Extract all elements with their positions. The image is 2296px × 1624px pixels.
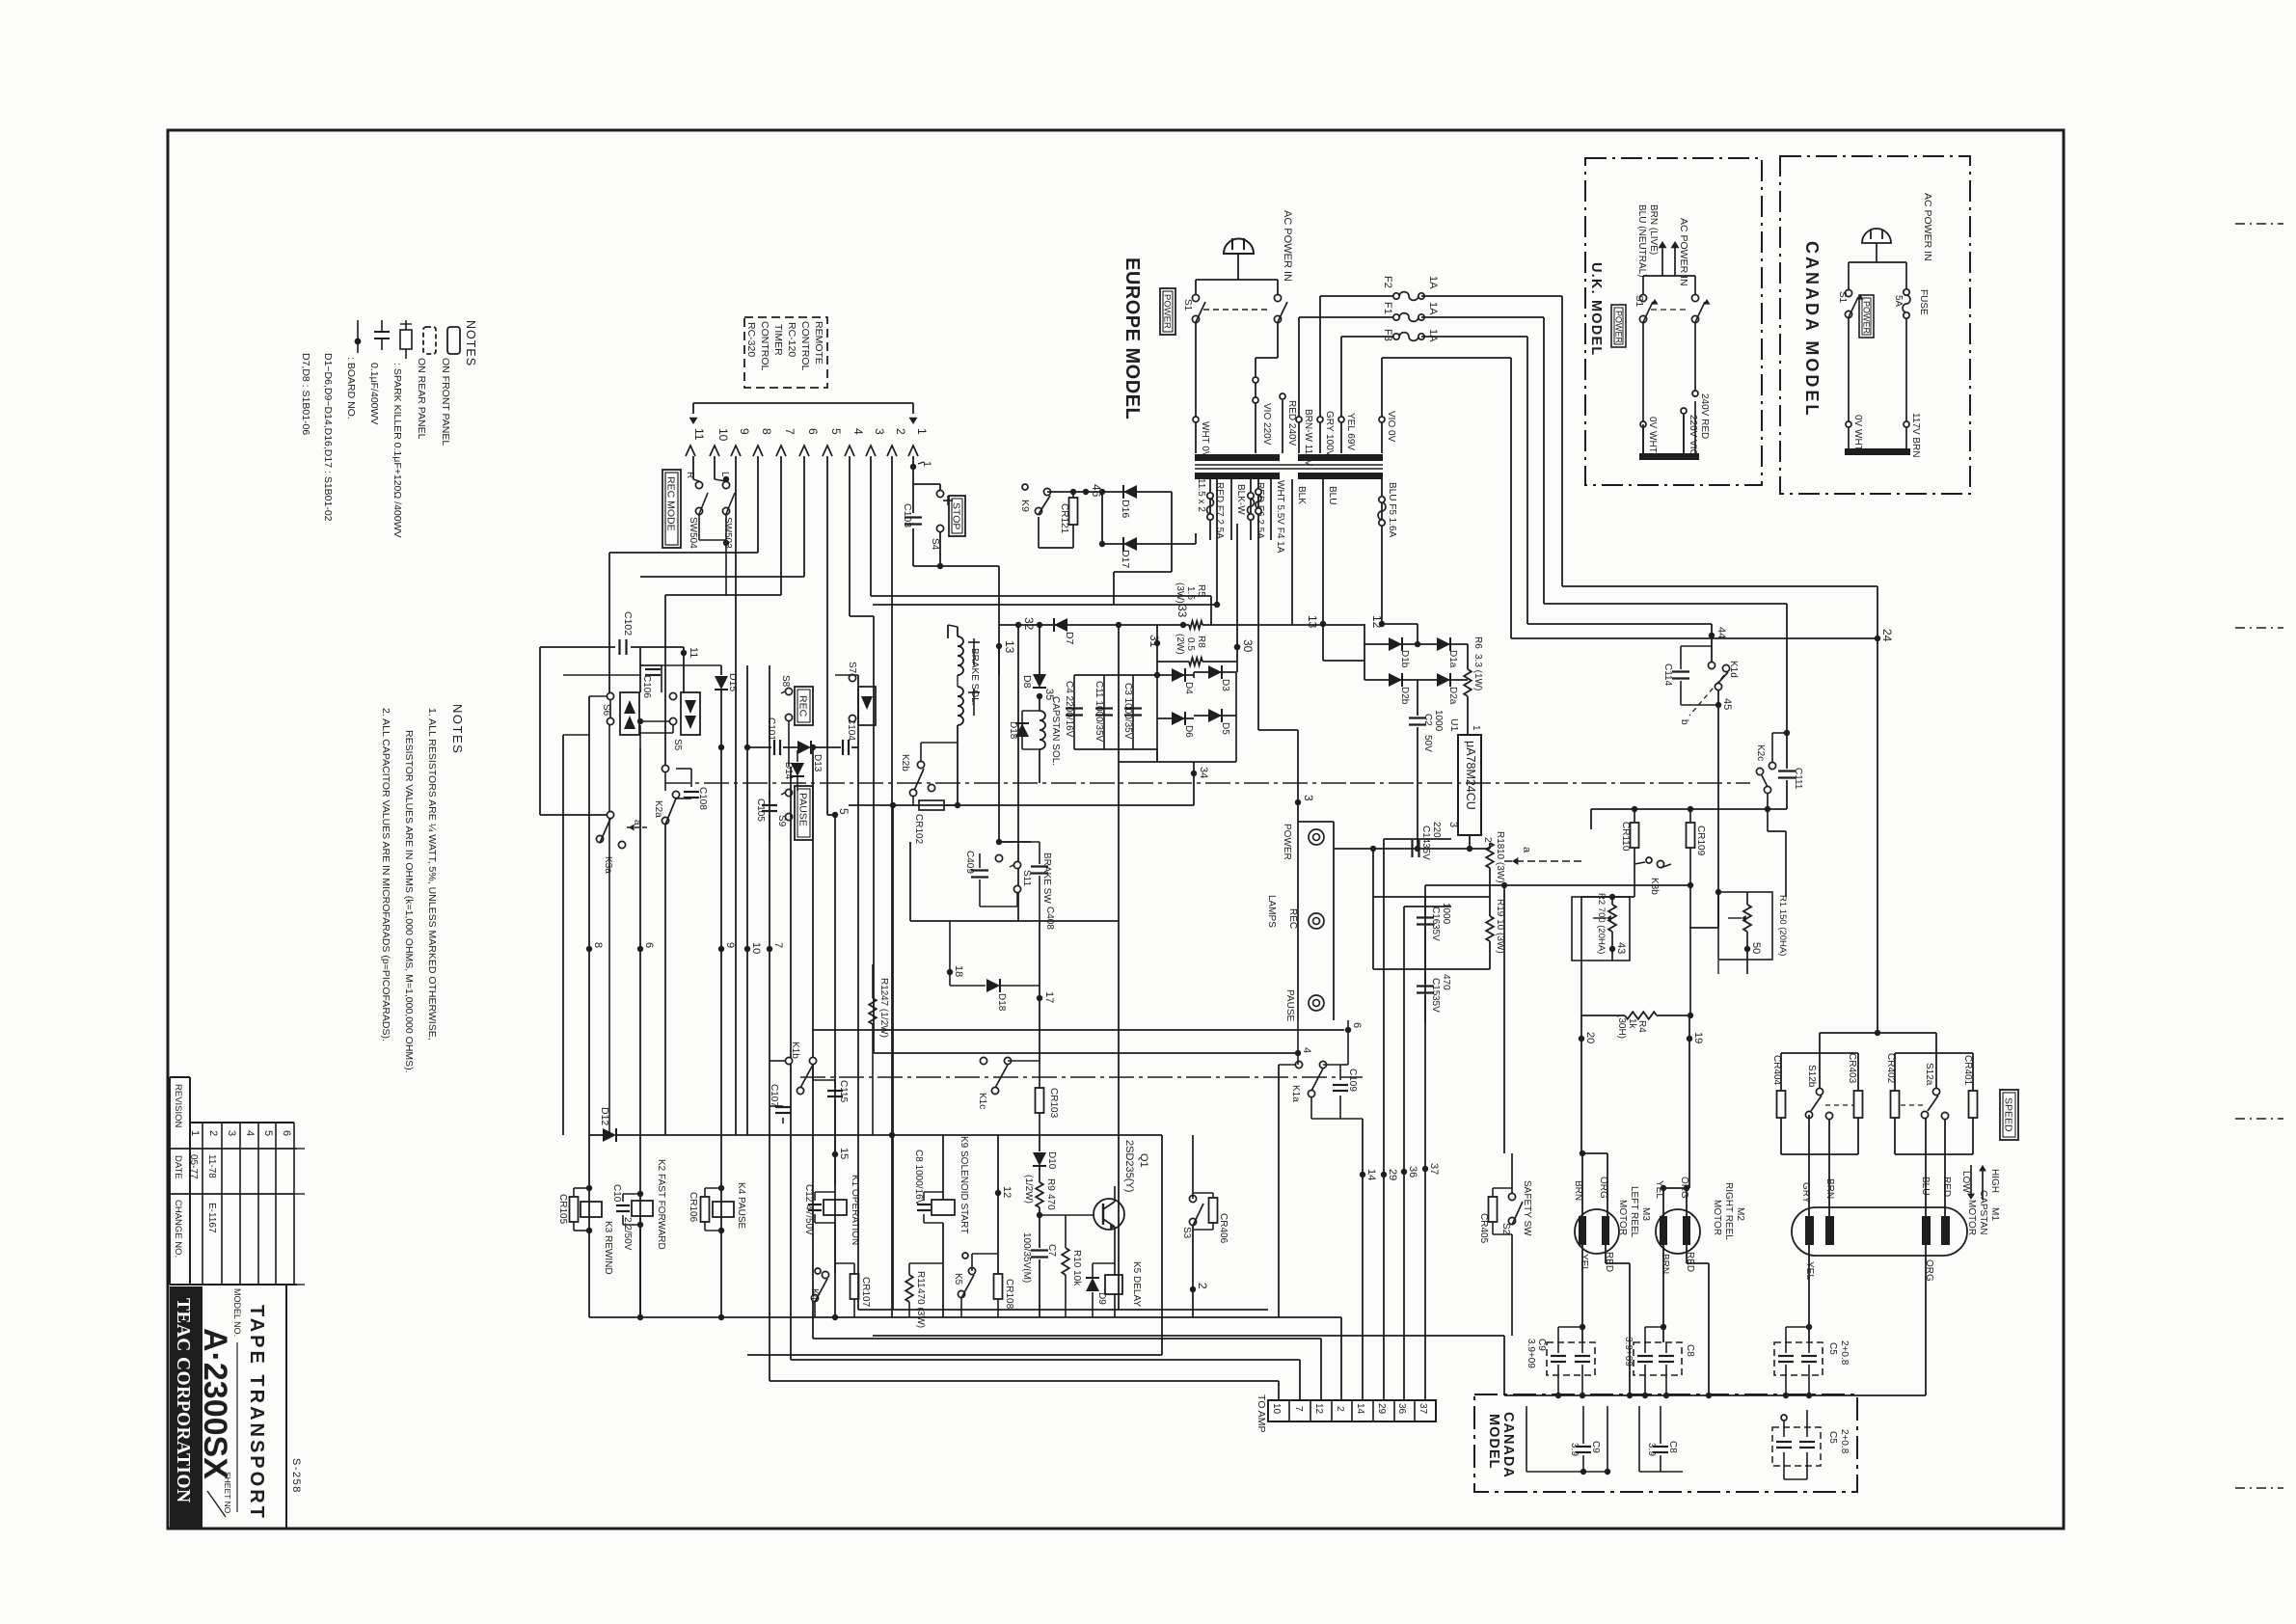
- capacitor C16 1000 35V: [1373, 896, 1490, 898]
- svg-text:CONTROL: CONTROL: [799, 321, 811, 370]
- resistor CR401: [1969, 1091, 1978, 1118]
- svg-text:BRN: BRN: [1660, 1254, 1670, 1274]
- svg-text:11-78: 11-78: [206, 1154, 217, 1178]
- speed switch bus: [1820, 1032, 1936, 1034]
- svg-text:TAPE TRANSPORT: TAPE TRANSPORT: [246, 1305, 267, 1521]
- svg-text:U1: U1: [1448, 718, 1460, 732]
- primary tap YEL 69V: [1340, 337, 1342, 453]
- svg-text:CR107: CR107: [860, 1277, 871, 1308]
- svg-text:C107: C107: [769, 1084, 779, 1107]
- node 19: [1687, 1036, 1692, 1042]
- relay contact K5: [962, 1253, 968, 1259]
- svg-text:U.K. MODEL: U.K. MODEL: [1588, 262, 1604, 356]
- legend: spark killer symbol: [405, 320, 407, 330]
- wire x1205 riser: [1161, 1135, 1163, 1355]
- capacitor C106: [639, 665, 641, 692]
- svg-text:K1c: K1c: [977, 1093, 987, 1109]
- HIGH LOW arrows: [1982, 1169, 1984, 1200]
- node 17: [1037, 995, 1042, 1001]
- svg-text:43: 43: [1615, 942, 1627, 954]
- svg-text:50V: 50V: [1422, 735, 1433, 752]
- wire riser x798: [769, 665, 770, 842]
- svg-text:D16: D16: [1120, 500, 1131, 518]
- lamp bottom return: [1297, 1020, 1299, 1065]
- node 4 row: [1295, 1050, 1301, 1056]
- wire pin 8 drop: [757, 456, 759, 553]
- svg-text:C15: C15: [1430, 978, 1441, 996]
- wire riser x690 lower: [664, 825, 666, 1135]
- resistor CR404: [1777, 1091, 1786, 1118]
- wire D16 row right leg: [1171, 492, 1173, 572]
- bridge diode D3: [1194, 671, 1236, 673]
- svg-text:CANADA: CANADA: [1500, 1412, 1516, 1478]
- svg-text:C102: C102: [622, 611, 634, 636]
- svg-text:(2W): (2W): [1175, 634, 1185, 655]
- canada snubber C5 2+0.8: [1772, 1427, 1821, 1466]
- capacitor C105: [769, 791, 770, 802]
- relay K9 SOLENOID START with C8: [942, 1135, 944, 1200]
- svg-text:13: 13: [1003, 640, 1016, 654]
- speed gang dashed link right: [1901, 1104, 1925, 1106]
- legend: on rear panel dashed box symbol: [423, 327, 436, 354]
- REC pushbutton boxed label: [795, 687, 813, 725]
- svg-text:1k: 1k: [1627, 1018, 1637, 1030]
- diode D14: [797, 750, 798, 762]
- svg-text:F3: F3: [1382, 329, 1393, 341]
- node 20: [1579, 1036, 1584, 1042]
- svg-text:13: 13: [1306, 615, 1319, 629]
- svg-text:4: 4: [244, 1130, 256, 1136]
- svg-text:4: 4: [1301, 1047, 1312, 1053]
- svg-text:NOTES: NOTES: [464, 320, 477, 366]
- node 13 (power row): [996, 643, 1002, 649]
- legend: capacitor symbol: [381, 320, 383, 332]
- node 50: [1744, 946, 1750, 952]
- svg-text:D18: D18: [1008, 721, 1018, 740]
- diode D8: [1039, 625, 1040, 675]
- svg-text:CR105: CR105: [557, 1194, 568, 1225]
- svg-text:SHEET NO: SHEET NO: [223, 1472, 232, 1514]
- transistor Q1 2SD235(Y): [1094, 1199, 1124, 1230]
- svg-text:12: 12: [1313, 1403, 1324, 1415]
- svg-text:10: 10: [1271, 1403, 1282, 1415]
- svg-text:11.5 x 2: 11.5 x 2: [1196, 478, 1206, 512]
- dash-dot board boundary lower: [800, 1076, 1363, 1078]
- svg-text:7: 7: [772, 942, 784, 948]
- svg-text:C108: C108: [697, 787, 708, 810]
- wire x1056 riser: [1017, 596, 1019, 625]
- svg-text:CR406: CR406: [1218, 1213, 1229, 1244]
- capacitor C102: [540, 646, 615, 648]
- title block model cell: [203, 1284, 286, 1286]
- svg-text:BLU (NEUTRAL): BLU (NEUTRAL): [1636, 204, 1647, 278]
- svg-text:C114: C114: [1662, 663, 1673, 687]
- resistor CR107: [851, 1274, 859, 1299]
- svg-text:CR405: CR405: [1478, 1213, 1489, 1244]
- rectifier diode D1a: [1437, 637, 1450, 651]
- relay contact K3b: [1646, 857, 1652, 863]
- capstan motor M1: [1792, 1207, 1967, 1256]
- wire 37 run: [1425, 884, 1690, 886]
- primary tap GRY 100V: [1319, 296, 1321, 453]
- resistor CR109: [1689, 809, 1691, 822]
- svg-text:44: 44: [1715, 627, 1727, 638]
- svg-text:CR403: CR403: [1847, 1053, 1857, 1084]
- svg-text:C4 2200/16V: C4 2200/16V: [1064, 681, 1074, 738]
- svg-text:S11: S11: [1021, 870, 1032, 886]
- capacitor C15 470 35V: [1373, 968, 1490, 970]
- wire x1036 mid riser: [999, 841, 1031, 843]
- svg-text:8: 8: [760, 428, 773, 435]
- svg-text:POWER: POWER: [1282, 824, 1292, 860]
- svg-text:17: 17: [1043, 991, 1055, 1003]
- primary tap VIO 0V: [1381, 358, 1383, 453]
- svg-text:CR404: CR404: [1771, 1055, 1782, 1086]
- svg-text:5: 5: [829, 428, 843, 435]
- wire K2c branch down: [1767, 809, 1769, 831]
- capacitor C107: [770, 1105, 783, 1107]
- svg-text:3.9+09: 3.9+09: [1526, 1339, 1536, 1368]
- switch S12a: [1932, 1088, 1939, 1095]
- svg-text:D5: D5: [1220, 722, 1230, 735]
- node 5: [832, 812, 838, 818]
- UK switch S1: [1643, 275, 1675, 277]
- main horizontal y1177: [617, 1134, 1162, 1136]
- test point a' arrow: [627, 826, 648, 828]
- svg-text:SPEED: SPEED: [2003, 1097, 2014, 1132]
- svg-text:C10: C10: [611, 1184, 622, 1203]
- resistor R9 470 (1/2W): [1039, 1167, 1040, 1182]
- relay contact K2b: [917, 761, 924, 768]
- transformer T1 secondary winding bars: [1195, 473, 1280, 479]
- svg-text:D1~D6,D9~D14,D16,D17 : S1B01-0: D1~D6,D9~D14,D16,D17 : S1B01-02: [322, 353, 334, 522]
- wire 37 to connector: [1424, 885, 1426, 1400]
- svg-text:POWER: POWER: [1162, 294, 1173, 329]
- svg-text:S2: S2: [1500, 1223, 1511, 1235]
- svg-text:VIO 0V: VIO 0V: [1386, 411, 1396, 443]
- node 30: [1234, 644, 1240, 650]
- wire 36 run: [1404, 906, 1451, 907]
- svg-text:11: 11: [688, 647, 699, 658]
- resistor CR403: [1854, 1091, 1863, 1118]
- wire 29 run: [1384, 838, 1451, 840]
- secondary lead drop F7: [1195, 479, 1197, 492]
- svg-text:0.1μF/400WV: 0.1μF/400WV: [368, 363, 380, 424]
- wire riser x890 lower: [857, 747, 859, 1310]
- connector bracket wire: [693, 402, 913, 404]
- svg-text:19: 19: [1692, 1032, 1704, 1043]
- svg-text:3.9: 3.9: [1646, 1443, 1657, 1456]
- svg-text:S5: S5: [672, 739, 683, 751]
- svg-text:b: b: [1679, 719, 1689, 725]
- svg-text:C408: C408: [1044, 907, 1055, 930]
- svg-text:0V WHT: 0V WHT: [1647, 417, 1658, 453]
- svg-text:05-77: 05-77: [188, 1154, 199, 1179]
- left mesh crossing y745: [540, 717, 563, 719]
- svg-text:Q1: Q1: [1138, 1153, 1149, 1168]
- rectifier diode D1b: [1364, 624, 1365, 680]
- svg-text:CAPSTAN SOL.: CAPSTAN SOL.: [1050, 696, 1061, 766]
- svg-text:D7,D8 : S1B01-06: D7,D8 : S1B01-06: [300, 353, 311, 435]
- svg-text:K4 PAUSE: K4 PAUSE: [736, 1182, 746, 1229]
- wire riser x753 to y618: [725, 555, 727, 596]
- svg-text:EUROPE MODEL: EUROPE MODEL: [1121, 257, 1143, 420]
- resistor R4 1k (30H): [1581, 1015, 1625, 1016]
- svg-text:3.9: 3.9: [1569, 1443, 1580, 1456]
- node 34: [1191, 771, 1197, 776]
- svg-text:470 (3W): 470 (3W): [915, 1288, 926, 1328]
- svg-text:D2a: D2a: [1447, 687, 1458, 705]
- wire pin 1 drop: [912, 456, 914, 484]
- relay K4 PAUSE with CR106: [701, 1197, 710, 1222]
- Canada primary bar: [1845, 448, 1910, 455]
- svg-text:C111: C111: [1793, 768, 1803, 790]
- svg-text:7: 7: [1293, 1406, 1304, 1412]
- capacitor C4 2200/16V: [1073, 675, 1075, 749]
- svg-text:FUSE: FUSE: [1918, 289, 1929, 315]
- svg-text:DATE: DATE: [173, 1155, 183, 1179]
- svg-text:S12a: S12a: [1924, 1063, 1934, 1086]
- svg-text:TO AMP: TO AMP: [1256, 1394, 1267, 1432]
- svg-text:D12: D12: [599, 1107, 610, 1125]
- svg-text:REC: REC: [1287, 908, 1298, 929]
- svg-text:RC-120: RC-120: [786, 322, 797, 357]
- svg-text:AC POWER IN: AC POWER IN: [1922, 193, 1933, 261]
- safety switch S2 with CR405: [1508, 1193, 1515, 1200]
- svg-text:8: 8: [592, 942, 604, 948]
- relay contact K4: [815, 1268, 821, 1274]
- PAUSE lamp: [1297, 937, 1299, 988]
- capacitor C7 100/35V(M): [1037, 1212, 1042, 1218]
- svg-text:12: 12: [1001, 1186, 1013, 1198]
- svg-text:A·2300SX: A·2300SX: [197, 1328, 233, 1479]
- svg-text:10: 10: [716, 428, 730, 442]
- node 45: [1715, 702, 1721, 708]
- svg-text:C11 1000/35V: C11 1000/35V: [1094, 681, 1104, 743]
- svg-text:M3: M3: [1640, 1207, 1651, 1221]
- relay contact K1c: [980, 1057, 986, 1064]
- wire pin 7 drop: [780, 456, 782, 595]
- UK POWER boxed label: [1611, 305, 1626, 347]
- svg-text:C9: C9: [1536, 1339, 1547, 1351]
- svg-text:6: 6: [806, 428, 820, 435]
- svg-text:K1d: K1d: [1728, 661, 1739, 678]
- wire pin 11 drop: [692, 456, 694, 479]
- svg-text:35V: 35V: [1430, 995, 1441, 1013]
- svg-text:100/35V(M): 100/35V(M): [1021, 1232, 1032, 1283]
- svg-text:6: 6: [281, 1130, 292, 1136]
- svg-text:24: 24: [1880, 629, 1894, 642]
- long rail y627: [873, 604, 1217, 606]
- svg-text:(3W): (3W): [1175, 582, 1185, 604]
- resistor R6 3.3 (1W): [1467, 644, 1469, 669]
- svg-text:CHANGE NO.: CHANGE NO.: [173, 1200, 183, 1258]
- resistor CR402: [1891, 1091, 1900, 1118]
- svg-text:K2a: K2a: [653, 800, 663, 818]
- svg-text:2: 2: [207, 1130, 219, 1136]
- svg-text:BLU F5 1.6A: BLU F5 1.6A: [1387, 482, 1397, 538]
- svg-text:50: 50: [1750, 942, 1762, 954]
- speed group lower bus: [1781, 1153, 1858, 1155]
- wire pin 6 drop: [803, 456, 805, 577]
- svg-text:D4: D4: [1183, 682, 1194, 694]
- wire y560 horizontal: [914, 539, 940, 541]
- svg-text:3: 3: [226, 1130, 237, 1136]
- wire pin 2 drop: [891, 456, 893, 1317]
- svg-text:3: 3: [873, 428, 886, 435]
- wire riser x748 lower: [720, 747, 722, 1317]
- wire 29 to connector: [1383, 839, 1385, 1400]
- wire fuse F2 run to capstan speed group: [1561, 296, 1563, 586]
- brake solenoid: [957, 627, 959, 636]
- node 18 and diode D18: [947, 969, 953, 975]
- capacitor C2 1000 50V: [1417, 680, 1418, 716]
- svg-text:9: 9: [738, 428, 751, 435]
- svg-text:BLK: BLK: [1296, 486, 1307, 504]
- wire 36 to connector: [1403, 907, 1405, 1400]
- svg-text:220: 220: [1431, 822, 1442, 838]
- svg-text:CR109: CR109: [1695, 826, 1706, 856]
- svg-text:NOTES: NOTES: [450, 704, 465, 754]
- wire left riser x560: [539, 647, 541, 815]
- bottom long runs: [858, 1309, 1268, 1311]
- switch S8: [785, 688, 792, 694]
- SPEED boxed label: [2000, 1090, 2018, 1140]
- motor M2 wiring: [1663, 1187, 1689, 1189]
- wire pin 3 drop: [870, 456, 872, 596]
- svg-text:S8: S8: [780, 675, 791, 688]
- switch S5 with rewind symbol: [669, 692, 676, 699]
- sheet border frame: [168, 130, 2064, 1529]
- capacitor C108: [676, 798, 691, 799]
- svg-text:REVISION: REVISION: [173, 1084, 183, 1128]
- svg-text:RED F7 2.5A: RED F7 2.5A: [1214, 482, 1225, 539]
- dash-dot board boundary (power board): [665, 782, 1350, 784]
- svg-text:R2 700 (20HA): R2 700 (20HA): [1596, 893, 1607, 954]
- capacitor C14 220 35V: [1334, 848, 1470, 850]
- svg-text:HIGH: HIGH: [1989, 1169, 2000, 1193]
- svg-text:POWER: POWER: [1614, 311, 1624, 344]
- svg-text:CAPSTAN: CAPSTAN: [1978, 1190, 1988, 1235]
- test point a arrow: [1504, 860, 1581, 862]
- svg-text:BRN-W 117V: BRN-W 117V: [1303, 409, 1313, 467]
- brake switch group: [910, 920, 1119, 922]
- svg-text:C12 47/50V: C12 47/50V: [803, 1184, 814, 1235]
- svg-text:2+0.8: 2+0.8: [1839, 1340, 1850, 1366]
- svg-text:37: 37: [1418, 1403, 1428, 1415]
- wire K9 feed from x905: [873, 486, 1025, 488]
- wire CR102 row: [849, 804, 958, 806]
- svg-text:6: 6: [1351, 1022, 1363, 1028]
- svg-text:CR108: CR108: [1004, 1279, 1014, 1310]
- svg-text:7: 7: [783, 428, 797, 435]
- wire brake sol bottom: [957, 749, 959, 805]
- svg-text:E-1167: E-1167: [206, 1203, 217, 1233]
- relay K2 FAST FORWARD with C10: [639, 1217, 641, 1317]
- svg-text:RED: RED: [1941, 1177, 1952, 1197]
- svg-text:14: 14: [1355, 1403, 1365, 1415]
- svg-text:REMOTE: REMOTE: [813, 321, 824, 365]
- snubber C9 3.9+0.9 (left reel): [1547, 1342, 1595, 1375]
- POWER boxed label (Europe): [1160, 288, 1175, 335]
- svg-text:R6: R6: [1472, 636, 1483, 649]
- svg-text:1: 1: [1471, 725, 1481, 731]
- relay contact K1a with C109: [1295, 1061, 1302, 1068]
- svg-text:a: a: [1521, 847, 1532, 853]
- svg-text:K2 FAST FORWARD: K2 FAST FORWARD: [656, 1159, 666, 1250]
- connector feed staircase: [1340, 1317, 1342, 1400]
- wire riser x664 lower: [639, 747, 641, 1317]
- REC lamp: [1297, 873, 1299, 907]
- svg-text:SW504: SW504: [688, 517, 698, 549]
- svg-text:45: 45: [1721, 698, 1733, 710]
- svg-text:2.2/50V: 2.2/50V: [622, 1217, 633, 1251]
- svg-text:0.5: 0.5: [1185, 637, 1196, 651]
- dash-dot borders bottom of relay area: [563, 1076, 800, 1078]
- svg-text:D1a: D1a: [1447, 650, 1458, 668]
- svg-text:BLK-W: BLK-W: [1235, 484, 1246, 515]
- svg-text:1A: 1A: [1427, 302, 1439, 315]
- wire pin 9 drop: [735, 456, 737, 675]
- wire riser x820: [788, 747, 790, 767]
- svg-text:: BOARD NO.: : BOARD NO.: [345, 357, 357, 420]
- node 31: [1154, 640, 1160, 646]
- svg-text:C8 1000/16V: C8 1000/16V: [913, 1150, 924, 1206]
- svg-text:S1: S1: [1837, 291, 1848, 304]
- PAUSE pushbutton boxed label: [795, 786, 813, 840]
- wire K1b feed: [813, 1029, 1344, 1031]
- trimmer R1 150 (20HA): [1718, 892, 1772, 960]
- svg-text:VIO 220V: VIO 220V: [1261, 403, 1272, 446]
- canada snubber C9 3.9: [1526, 1406, 1527, 1472]
- svg-text:RC-320: RC-320: [745, 322, 757, 357]
- svg-text:S3: S3: [1181, 1227, 1192, 1239]
- svg-text:2: 2: [1482, 837, 1493, 843]
- svg-text:K4: K4: [809, 1288, 820, 1301]
- diode D9: [1092, 1263, 1094, 1277]
- wire horizontal y690: [640, 664, 684, 666]
- svg-text:M2: M2: [1735, 1207, 1745, 1221]
- legend: board-number junction symbol: [357, 320, 359, 353]
- svg-text:D3: D3: [1220, 679, 1230, 691]
- node 11 junction: [681, 650, 687, 656]
- resistor R5 1.5 (3W): [1189, 621, 1202, 629]
- switch S12b: [1816, 1088, 1823, 1095]
- svg-text:S1: S1: [1182, 299, 1193, 311]
- svg-text:PAUSE: PAUSE: [1284, 989, 1295, 1021]
- svg-text:1.5: 1.5: [1185, 586, 1196, 600]
- svg-text:R10 10k: R10 10k: [1071, 1250, 1082, 1286]
- UK supply arrows: [1661, 243, 1663, 276]
- switch S6 with fast-wind symbol: [607, 692, 613, 699]
- capacitor C104: [842, 740, 844, 755]
- svg-text:29: 29: [1376, 1403, 1387, 1415]
- svg-text:μA78M24CU: μA78M24CU: [1464, 741, 1477, 810]
- svg-text:L: L: [719, 472, 730, 477]
- svg-text:MOTOR: MOTOR: [1712, 1200, 1722, 1235]
- svg-text:STOP: STOP: [951, 502, 962, 529]
- svg-text:R9: R9: [1045, 1178, 1056, 1191]
- svg-text:9: 9: [724, 942, 736, 948]
- diode D17: [1123, 537, 1137, 551]
- svg-text:37: 37: [1428, 1163, 1440, 1175]
- extra riser x1260 lower: [1214, 605, 1216, 625]
- resistor R18 10 (3W): [1470, 848, 1490, 850]
- svg-text:12: 12: [1370, 615, 1384, 629]
- svg-text:MOTOR: MOTOR: [1966, 1200, 1977, 1235]
- svg-text:47 (1/2W): 47 (1/2W): [878, 995, 889, 1038]
- svg-text:1: 1: [189, 1130, 201, 1136]
